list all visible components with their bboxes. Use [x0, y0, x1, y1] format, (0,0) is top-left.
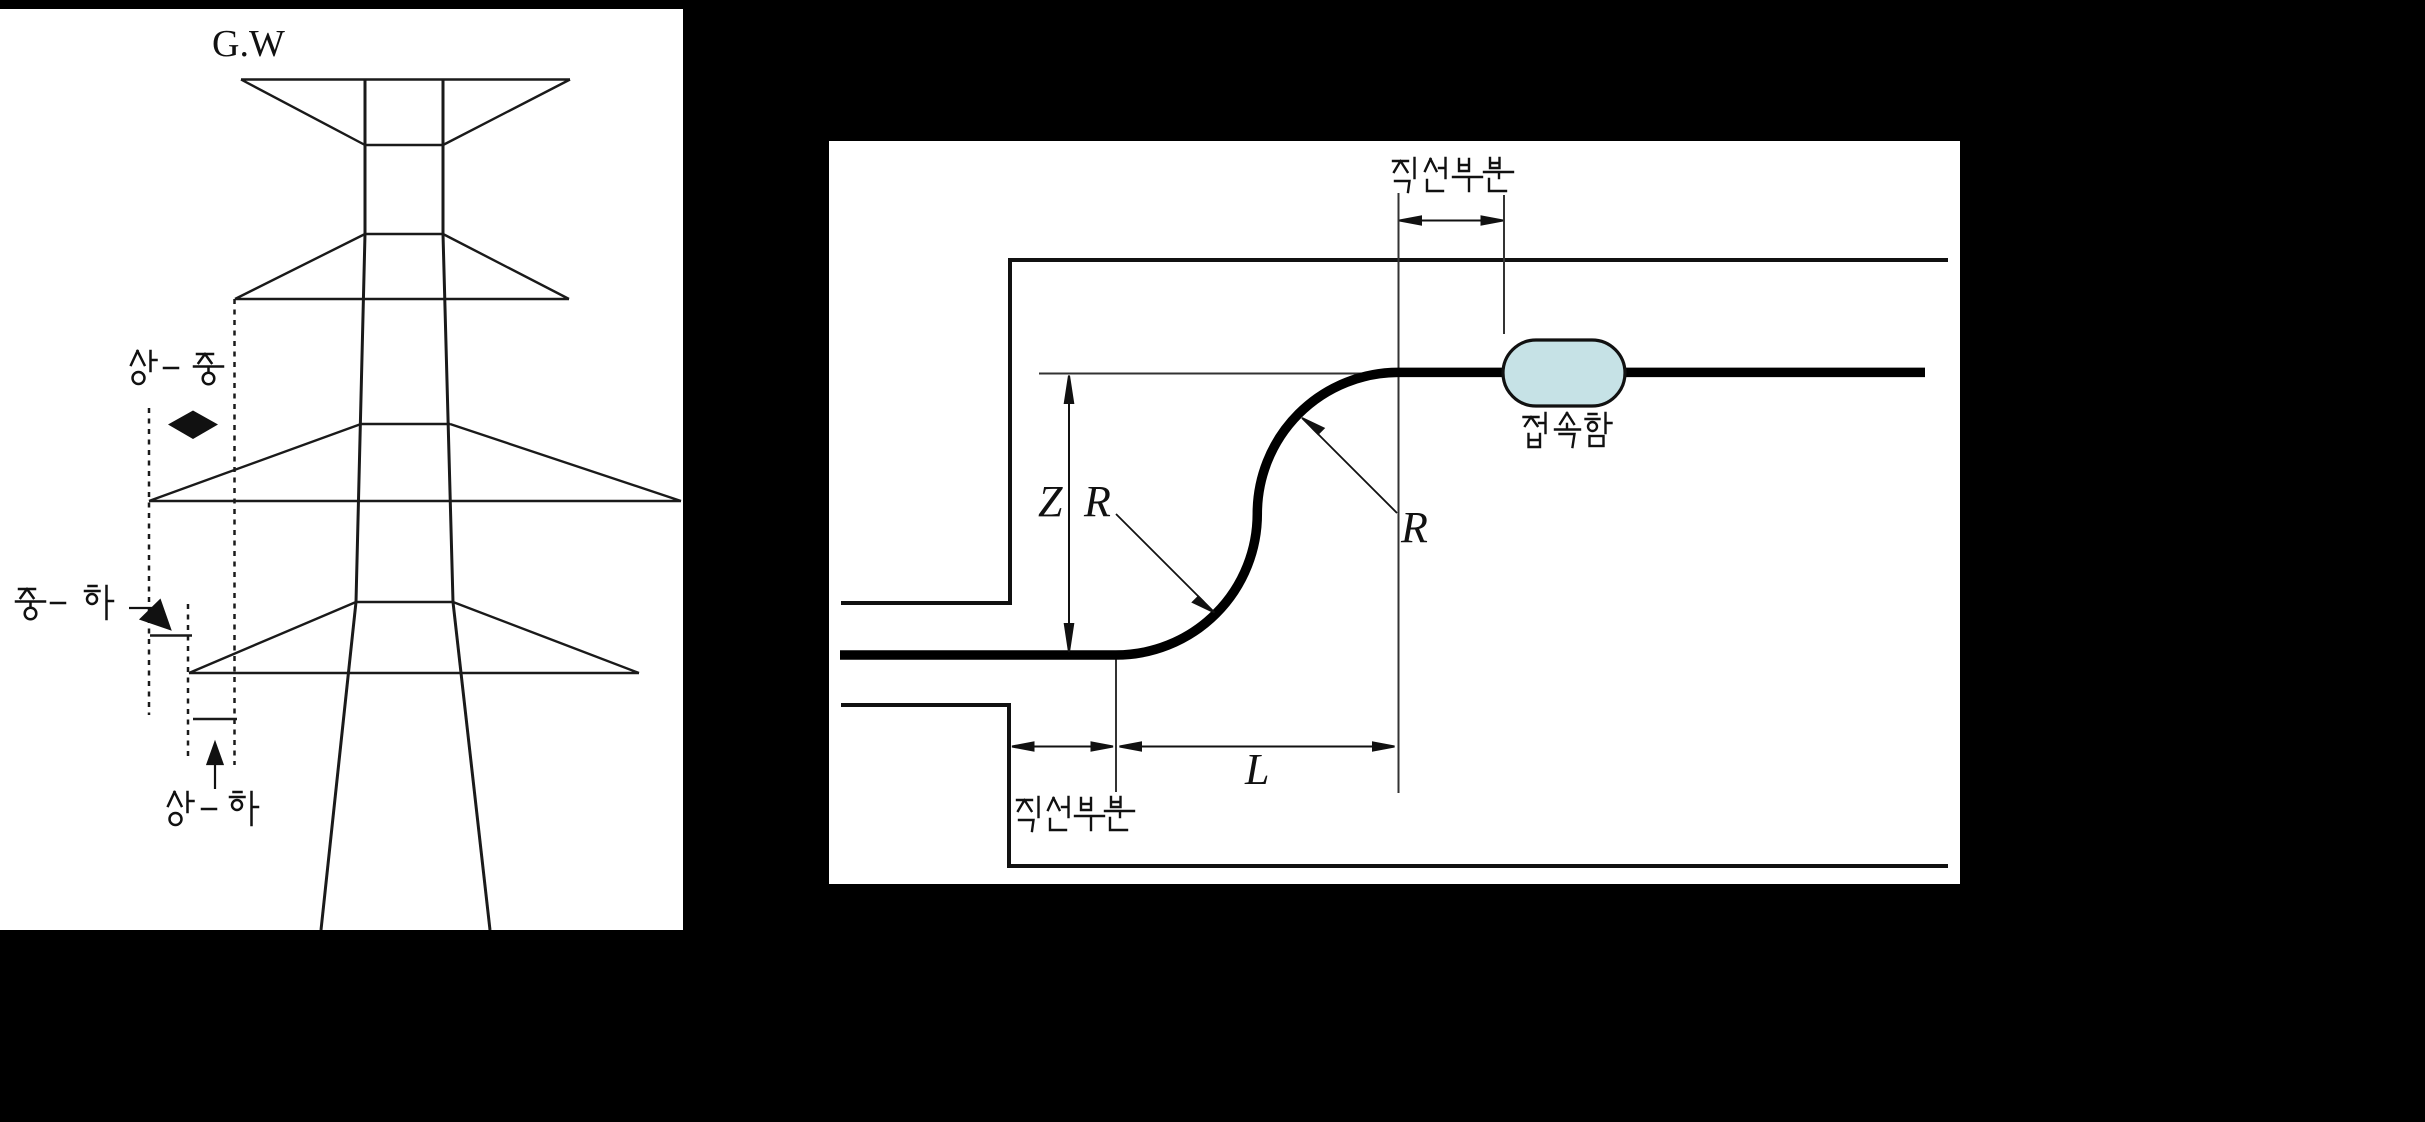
- tower crossbar 3: [361, 423, 450, 425]
- dotted guide line at middle-arm tip x=149: [148, 408, 151, 715]
- tower crossbar 2: [365, 233, 443, 235]
- label 접속함: [1524, 413, 1612, 447]
- tower body left rail: [356, 80, 365, 603]
- cable with S-curve: [840, 372, 1925, 655]
- top dimension double arrow (직선부분): [1400, 217, 1504, 225]
- Z dimension double arrow: [1065, 376, 1073, 653]
- vertical marker line at curve start x=1116: [1115, 655, 1117, 792]
- radius arrow R2 (upper arc): [1302, 418, 1397, 513]
- dotted guide line at top-arm tip x=234: [233, 299, 236, 765]
- vertical marker line at box left x=1504: [1503, 195, 1505, 334]
- tick 중-하 (between x149 and x188): [150, 634, 192, 637]
- tower arm 3 (middle): [149, 424, 681, 501]
- bottom dimension arrow L (curve start to curve end): [1120, 743, 1395, 751]
- vertical marker line at curve end x=1398: [1398, 193, 1400, 793]
- svg-text:R: R: [1400, 503, 1428, 552]
- tower body right rail: [443, 80, 453, 603]
- reference line top level (thin): [1039, 373, 1393, 375]
- label 직선부분 top: [1393, 158, 1513, 192]
- tower arm 4 (lower): [189, 602, 639, 673]
- bottom dimension arrow pair (duct edge to curve start): [1012, 743, 1113, 751]
- tower arm 2: [235, 234, 569, 299]
- label 상-중: [131, 351, 223, 384]
- label 중-하: [16, 586, 113, 619]
- tower left leg: [321, 602, 356, 930]
- tower right leg: [453, 602, 490, 930]
- right panel background: [829, 141, 1960, 884]
- arrow 중-하 pointing to tick: [129, 601, 170, 630]
- svg-text:G.W: G.W: [212, 23, 285, 65]
- arrow 상-하 pointing up to tick: [208, 743, 223, 789]
- duct lower outline: [841, 705, 1948, 866]
- label 직선부분 bottom: [1017, 797, 1134, 831]
- tower crossbar 1: [365, 144, 443, 146]
- svg-text:L: L: [1244, 745, 1269, 794]
- duct upper outline: [841, 260, 1948, 603]
- diamond marker 상-중: [168, 411, 218, 440]
- tower crossbar 4: [356, 601, 453, 603]
- svg-text:Z: Z: [1038, 477, 1063, 526]
- junction box: [1503, 340, 1625, 406]
- label 상-하: [168, 792, 258, 825]
- svg-text:R: R: [1083, 477, 1111, 526]
- dotted guide line at lower-arm tip x=188: [187, 604, 190, 761]
- radius arrow R1 (lower arc): [1116, 514, 1215, 613]
- tower top arm (G.W arm): [241, 80, 570, 146]
- tick 상-하 (between x188 and x234): [193, 718, 237, 721]
- left panel background: [0, 9, 683, 930]
